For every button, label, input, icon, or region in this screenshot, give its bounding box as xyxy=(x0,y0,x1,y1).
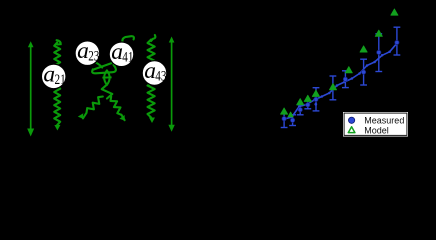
wavy line to lower-right arrow xyxy=(111,97,125,121)
measured points with error bars xyxy=(281,114,288,128)
node a21 xyxy=(41,61,66,88)
left wavy photon line with arrow xyxy=(54,40,61,130)
wavy line to lower-left arrow xyxy=(78,97,103,119)
node a23 xyxy=(75,38,100,65)
svg-text:a: a xyxy=(111,39,123,65)
svg-text:21: 21 xyxy=(55,72,66,88)
legend Measured entry xyxy=(349,117,355,123)
wide coil loop under circles xyxy=(92,65,116,73)
right wavy photon line with arrow xyxy=(148,35,156,123)
node a41 xyxy=(109,39,134,66)
wavy stub above a41 xyxy=(122,36,134,43)
svg-text:23: 23 xyxy=(88,49,99,65)
fit points xyxy=(291,116,294,119)
center vertical coil lower xyxy=(102,85,113,99)
fit line (wobbly polyline) xyxy=(283,43,397,119)
svg-text:Measured: Measured xyxy=(364,116,404,126)
legend box xyxy=(343,112,408,137)
svg-text:a: a xyxy=(43,61,55,87)
link from a41 to center (tent diagonal) xyxy=(93,63,111,69)
svg-text:a: a xyxy=(77,38,89,64)
svg-text:a: a xyxy=(144,58,156,84)
svg-text:Model: Model xyxy=(364,126,389,136)
lens (squeezing loop) xyxy=(102,70,111,85)
node a43 xyxy=(142,58,167,85)
legend Model entry xyxy=(348,127,355,133)
link from a23 to center xyxy=(95,62,102,68)
svg-text:41: 41 xyxy=(122,50,133,66)
left double-headed arrow xyxy=(27,41,34,136)
svg-text:43: 43 xyxy=(155,68,166,84)
stray small point below bar 4 xyxy=(314,103,317,106)
right double-headed arrow xyxy=(168,37,174,132)
model triangles xyxy=(281,108,288,114)
